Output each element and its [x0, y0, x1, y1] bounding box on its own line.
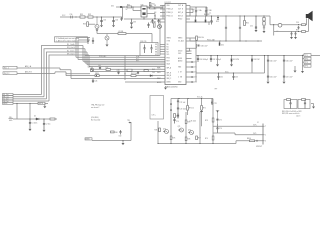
wire vertical rail — [124, 56, 126, 81]
resistor R35 — [150, 7, 155, 9]
svg-text:INPB: INPB — [157, 72, 161, 74]
transistor Q3 — [95, 25, 99, 29]
capacitor C42 — [99, 67, 101, 70]
capacitor C72 — [177, 108, 179, 118]
ground — [100, 25, 103, 27]
test point TP4 — [304, 64, 311, 67]
resistor R53 — [302, 31, 306, 33]
wire drop x240 — [239, 16, 241, 41]
svg-text:D1: D1 — [34, 116, 36, 118]
connector flag IN_R — [3, 72, 17, 75]
wire drop x226 — [225, 16, 227, 41]
svg-text:M3: M3 — [167, 52, 169, 54]
svg-text:C1 100n: C1 100n — [32, 123, 38, 125]
speaker terminals — [307, 18, 309, 31]
wire main y119 — [13, 118, 36, 120]
svg-text:INP_B: INP_B — [167, 73, 171, 75]
wire rail x196 — [195, 38, 197, 82]
resistor R54 — [196, 36, 198, 40]
resistor R70 — [187, 106, 189, 111]
wire bus line 1 — [76, 38, 165, 58]
capacitor C38 — [143, 45, 145, 54]
component box on AIN_R — [95, 75, 99, 77]
svg-text:MUTE: MUTE — [39, 103, 43, 105]
wire rail x171 — [170, 99, 172, 144]
wire bus line 4 — [85, 49, 165, 63]
capacitor C74 — [173, 118, 175, 124]
ground — [217, 56, 219, 65]
ground mid right — [294, 66, 296, 70]
svg-text:D52 ICM: D52 ICM — [254, 59, 261, 61]
svg-text:U1 VCC: U1 VCC — [165, 2, 172, 4]
svg-text:L1: L1 — [210, 13, 212, 15]
svg-text:R31: R31 — [80, 14, 83, 16]
svg-text:FB30: FB30 — [95, 73, 99, 75]
capacitor C68 to ground — [295, 32, 297, 37]
svg-text:R43: R43 — [152, 69, 155, 71]
wire OC rail y41 — [190, 40, 262, 42]
svg-text:R71: R71 — [203, 108, 206, 110]
svg-text:TP4: TP4 — [305, 66, 308, 68]
svg-text:SPKOUT: SPKOUT — [256, 146, 262, 148]
cap marks on rail x171 — [170, 104, 172, 111]
capacitor C55 — [255, 16, 257, 30]
wire drop x201.5 — [201, 110, 203, 126]
wire — [39, 118, 57, 120]
svg-text:5V: 5V — [126, 9, 128, 11]
capacitor C57 — [210, 16, 212, 25]
svg-text:C78: C78 — [214, 103, 217, 105]
svg-text:C51: C51 — [194, 67, 197, 69]
wire out row3 — [236, 141, 263, 144]
capacitor C51 — [192, 66, 195, 68]
wire corner to speaker — [270, 16, 278, 25]
transistor Q30 — [90, 68, 93, 71]
svg-text:RL_Out A: RL_Out A — [67, 43, 75, 46]
capacitor C2 — [43, 119, 45, 130]
capacitor C58 — [198, 45, 200, 46]
svg-text:R77: R77 — [198, 138, 201, 140]
wire bst rail — [190, 7, 207, 16]
capacitor C76 — [216, 124, 218, 133]
pin stubs left mid — [160, 45, 165, 55]
svg-text:R75: R75 — [173, 138, 176, 140]
transistor Q4 — [105, 36, 109, 40]
pin stubs left top — [160, 6, 165, 23]
speaker LS1 — [306, 14, 308, 18]
svg-text:C55: C55 — [250, 26, 253, 28]
connector flag IN_L — [3, 66, 17, 69]
diode D31 — [150, 75, 152, 77]
RC column C64 — [267, 56, 269, 82]
svg-text:C71 1uF: C71 1uF — [180, 102, 186, 104]
capacitor C63 pair below — [232, 73, 234, 80]
diode D51 — [231, 56, 233, 59]
svg-text:OTW: OTW — [167, 41, 171, 43]
svg-text:2. All res 5% unless noted: 2. All res 5% unless noted — [56, 39, 77, 42]
ground — [29, 129, 32, 131]
svg-text:R90: R90 — [115, 132, 118, 134]
svg-text:C66 0.1uF: C66 0.1uF — [286, 60, 293, 62]
resistor R30 — [127, 6, 132, 8]
svg-text:Q30: Q30 — [88, 67, 91, 69]
wire top rail y98.5 — [171, 98, 213, 100]
resistor R80 inline — [250, 140, 255, 142]
test point TP2 — [304, 57, 311, 60]
capacitor C60 — [197, 56, 199, 63]
svg-text:L31 FB: L31 FB — [118, 31, 123, 33]
diode D53 below wire — [217, 15, 218, 16]
wire block bottom rail — [85, 55, 160, 57]
capacitor C_BA — [195, 7, 197, 16]
wire bus line 7 — [90, 68, 165, 70]
resistor R75 — [170, 136, 172, 140]
wire main supply y17 — [60, 16, 123, 18]
svg-text:C44: C44 — [152, 72, 155, 74]
resistor R51 stack — [263, 18, 265, 21]
capacitor C40 — [137, 72, 139, 75]
svg-text:C53: C53 — [194, 77, 197, 79]
resistor R78 — [212, 118, 214, 122]
test point header — [302, 56, 304, 66]
svg-text:M3: M3 — [155, 52, 157, 54]
node junction — [225, 15, 226, 16]
pin stubs right — [186, 6, 196, 83]
test point TP3 — [304, 61, 311, 64]
svg-text:AIN_R B: AIN_R B — [25, 71, 32, 74]
capacitor C36 — [151, 19, 153, 24]
svg-text:C_TL: C_TL — [192, 9, 196, 11]
svg-text:R74: R74 — [155, 130, 158, 132]
svg-text:C43: C43 — [117, 70, 120, 72]
svg-text:OUT_B: OUT_B — [178, 9, 183, 11]
wire lower rail y19 — [124, 17, 160, 19]
IC U30 opto — [141, 6, 147, 17]
svg-text:PDN_ALL: PDN_ALL — [99, 55, 107, 58]
wire bus line 2 — [78, 40, 165, 59]
resistor R72 — [174, 114, 176, 118]
capacitor C45 small — [121, 17, 123, 21]
svg-text:M1: M1 — [167, 47, 169, 49]
capacitor C30 inline — [71, 16, 72, 19]
capacitor C1 — [29, 119, 31, 129]
resistor R50 vertical — [244, 21, 246, 26]
capacitor C37 — [157, 19, 159, 24]
wire out A — [190, 6, 193, 17]
svg-text:TP5: TP5 — [127, 120, 130, 122]
connector flag RR — [3, 96, 14, 98]
svg-text:C32: C32 — [115, 19, 118, 21]
svg-text:R73: R73 — [188, 122, 191, 124]
svg-text:TP7: TP7 — [215, 89, 218, 91]
label box MUTE — [38, 102, 45, 104]
svg-text:TP1: TP1 — [305, 55, 308, 57]
ground — [43, 130, 46, 132]
svg-text:C73: C73 — [176, 116, 179, 118]
svg-text:C90: C90 — [119, 136, 122, 138]
wire stub down — [29, 103, 31, 119]
svg-text:D50: D50 — [221, 45, 224, 47]
svg-text:C65 0.1uF: C65 0.1uF — [270, 76, 277, 78]
component tick — [129, 122, 131, 124]
svg-text:R30: R30 — [127, 4, 130, 6]
wire — [147, 14, 155, 20]
svg-text:SR_Out D: SR_Out D — [67, 52, 75, 55]
svg-text:R49 1W: R49 1W — [204, 14, 210, 16]
svg-text:R76: R76 — [188, 139, 191, 141]
svg-text:OUT-: OUT- — [253, 133, 257, 135]
svg-text:R37: R37 — [106, 67, 109, 69]
capacitor C_DA dark — [195, 16, 197, 19]
svg-text:C50: C50 — [194, 62, 197, 64]
transistor Q72 — [190, 131, 194, 135]
svg-text:RST: RST — [136, 61, 139, 63]
ground — [122, 141, 124, 143]
resistor R34 horizontal — [118, 33, 126, 35]
snubber loop 1 — [284, 100, 297, 109]
wire out row2 — [213, 133, 263, 135]
svg-text:C67 0.1uF: C67 0.1uF — [286, 76, 293, 78]
wire block right edge — [159, 19, 161, 56]
svg-text:C58 0.1uF: C58 0.1uF — [201, 46, 208, 48]
wire bus line 6 — [89, 55, 165, 67]
snubber loop 2 — [298, 100, 310, 109]
connector flag RL — [3, 94, 14, 96]
capacitor C56 — [298, 26, 300, 29]
transistor Q5 — [158, 25, 162, 29]
capacitor C75 — [216, 118, 218, 121]
wire IN_L — [17, 68, 165, 79]
diode D52 — [251, 56, 253, 59]
svg-text:SCL: SCL — [167, 54, 170, 56]
svg-text:C_SB: C_SB — [178, 77, 182, 79]
ground — [263, 31, 266, 33]
label box — [85, 138, 92, 140]
header J2 — [262, 124, 264, 145]
wire y140 — [92, 140, 131, 142]
resistor R73 — [185, 120, 187, 124]
capacitor C39 — [150, 45, 152, 54]
ground — [302, 66, 304, 71]
svg-text:M1: M1 — [155, 47, 157, 49]
inductor L2 — [278, 23, 282, 27]
svg-text:D51 ICM: D51 ICM — [233, 59, 240, 61]
capacitor C71 — [177, 99, 179, 108]
capacitor C_BB — [205, 7, 207, 16]
wire — [126, 34, 152, 43]
svg-text:PDN: PDN — [167, 58, 170, 60]
svg-text:GN: GN — [154, 9, 156, 11]
svg-text:PV: PV — [154, 22, 156, 24]
capacitor C_DB dark — [205, 16, 207, 19]
svg-text:C54: C54 — [194, 82, 197, 84]
svg-text:J2: J2 — [257, 122, 259, 124]
svg-text:AIN_L A: AIN_L A — [25, 65, 32, 68]
svg-text:(C90,R90): (C90,R90) — [91, 117, 99, 119]
antenna tap symbol — [216, 110, 219, 124]
svg-text:C64 0.1uF: C64 0.1uF — [270, 60, 277, 62]
svg-text:C75: C75 — [219, 119, 222, 121]
transistor Q70 — [165, 130, 169, 134]
wire IN_R — [17, 72, 165, 76]
capacitor C90 — [119, 130, 121, 135]
resistor R76 — [185, 137, 187, 141]
node junction — [209, 22, 210, 23]
svg-text:C72 100n: C72 100n — [180, 109, 187, 111]
svg-text:R80 0: R80 0 — [247, 138, 251, 140]
svg-text:C61 1000pF: C61 1000pF — [213, 59, 221, 61]
wire out row1 — [213, 125, 263, 127]
wire main out y16 — [186, 15, 270, 17]
wire VCC rail y73 — [196, 56, 265, 74]
capacitor C62 pair below — [217, 73, 219, 80]
svg-text:TAS5142DKD: TAS5142DKD — [166, 86, 178, 89]
connector flag SR — [3, 100, 14, 102]
resistor R77 — [196, 136, 198, 140]
resistor R71 — [201, 106, 203, 111]
wire y7 upper rail — [116, 7, 163, 19]
bulk cap box — [150, 96, 164, 120]
resistor R90 — [111, 131, 115, 133]
svg-text:C41: C41 — [95, 81, 98, 83]
svg-text:C56: C56 — [296, 22, 299, 24]
svg-text:C63: C63 — [235, 77, 238, 79]
wire bus line 5 — [87, 52, 165, 65]
diode D1 — [36, 118, 39, 120]
svg-text:R81,C80 0.1uF 50V nr SPK: R81,C80 0.1uF 50V nr SPK — [282, 111, 303, 113]
svg-text:MUTE: MUTE — [3, 103, 7, 105]
wire MUTE — [13, 102, 38, 104]
svg-text:OUT+: OUT+ — [253, 125, 257, 127]
capacitor C43 — [117, 72, 119, 75]
wire bottom rail — [158, 143, 236, 145]
capacitor C31 to ground — [100, 17, 102, 25]
diode D50 — [219, 43, 221, 46]
resistor R33 vertical — [87, 22, 89, 27]
svg-text:SCL: SCL — [136, 59, 139, 61]
svg-text:Q71: Q71 — [178, 126, 181, 128]
capacitor C52 — [192, 71, 195, 73]
svg-text:C_ST: C_ST — [178, 72, 182, 74]
svg-text:TP2: TP2 — [305, 59, 308, 61]
svg-text:IN_L 1: IN_L 1 — [4, 68, 9, 70]
svg-text:RR_Out B: RR_Out B — [67, 46, 76, 49]
svg-text:RST: RST — [167, 61, 170, 63]
capacitor C34b — [92, 38, 94, 45]
svg-text:R41 10k: R41 10k — [131, 73, 137, 75]
svg-text:SL_Out C: SL_Out C — [67, 49, 75, 52]
svg-text:M2: M2 — [155, 49, 157, 51]
svg-text:C_BB: C_BB — [208, 10, 212, 12]
wire to speaker — [282, 24, 307, 26]
wire bottom bus — [125, 81, 165, 83]
wire rail y55.5 — [196, 55, 320, 57]
capacitor on drop x226 — [225, 27, 227, 28]
staircase wire — [186, 38, 197, 51]
resistor R37 — [106, 69, 110, 71]
wire bus line 3 — [83, 46, 165, 62]
svg-text:R54 20k: R54 20k — [198, 37, 204, 39]
svg-text:BST_B: BST_B — [178, 16, 183, 18]
svg-text:C74: C74 — [176, 121, 179, 123]
ground — [112, 25, 115, 27]
ground — [45, 103, 48, 106]
svg-text:INM_B: INM_B — [167, 75, 172, 77]
wire lower y22 — [190, 21, 213, 23]
svg-text:C38 C39: C38 C39 — [140, 41, 146, 43]
svg-text:R50: R50 — [246, 23, 249, 25]
svg-text:C36: C36 — [150, 22, 153, 24]
diode D32 — [120, 6, 122, 8]
ground snubber — [311, 104, 314, 107]
svg-text:R70 1k: R70 1k — [189, 108, 194, 110]
wire SL_Out — [13, 52, 87, 99]
resistor R36 vertical — [153, 23, 155, 27]
node junction — [239, 15, 240, 16]
svg-text:C33: C33 — [133, 21, 136, 23]
resistor R41 — [131, 75, 136, 77]
ground — [106, 45, 109, 47]
svg-text:PV: PV — [154, 19, 156, 21]
wire — [147, 5, 163, 19]
svg-text:TP3: TP3 — [305, 62, 308, 64]
capacitor C59 to ground — [291, 32, 293, 37]
wire bus line 8 — [90, 71, 165, 73]
resistor R79 — [212, 136, 214, 140]
connector flag MUTE — [3, 102, 14, 104]
wire RL_Out — [13, 46, 83, 95]
top cluster caps C35 — [147, 23, 149, 29]
capacitor C33 to ground — [130, 19, 132, 27]
capacitor C53 — [192, 76, 195, 78]
svg-text:C74 100n: C74 100n — [190, 120, 197, 122]
svg-text:C60 1000pF: C60 1000pF — [200, 59, 208, 61]
capacitor C54 — [192, 81, 195, 83]
wire SR_Out — [13, 55, 89, 101]
transistor Q71 — [180, 128, 184, 132]
resistor R74 — [159, 128, 161, 132]
wire — [133, 7, 141, 11]
capacitor C32 to ground — [112, 17, 114, 25]
filter box — [140, 43, 158, 56]
cap C78 small — [211, 99, 213, 106]
wire right edge — [130, 122, 132, 141]
resistor R52 — [302, 24, 306, 26]
resistor R39 — [127, 69, 132, 71]
svg-text:IN_R 2: IN_R 2 — [4, 73, 9, 75]
svg-text:R79: R79 — [205, 138, 208, 140]
wire RR_Out — [13, 49, 85, 97]
wire base rail y33.5 — [97, 29, 118, 34]
svg-text:C2 10u: C2 10u — [46, 124, 51, 126]
resistor R40 — [144, 70, 148, 72]
capacitor C50 — [192, 61, 195, 63]
capacitor C41 — [92, 79, 94, 83]
svg-text:C76: C76 — [219, 128, 222, 130]
svg-text:R33: R33 — [83, 24, 86, 26]
svg-text:GN: GN — [154, 12, 156, 14]
test point TP1 — [304, 54, 311, 57]
polarity tick — [256, 140, 258, 142]
capacitor C34 — [87, 38, 89, 45]
ground top — [165, 86, 167, 87]
small tick component — [200, 111, 203, 113]
wire stub down left — [16, 103, 18, 119]
wire rails bottom — [158, 99, 213, 144]
svg-text:C31: C31 — [103, 19, 106, 21]
node junction — [75, 16, 76, 17]
resistor R42 vertical top — [149, 3, 151, 6]
